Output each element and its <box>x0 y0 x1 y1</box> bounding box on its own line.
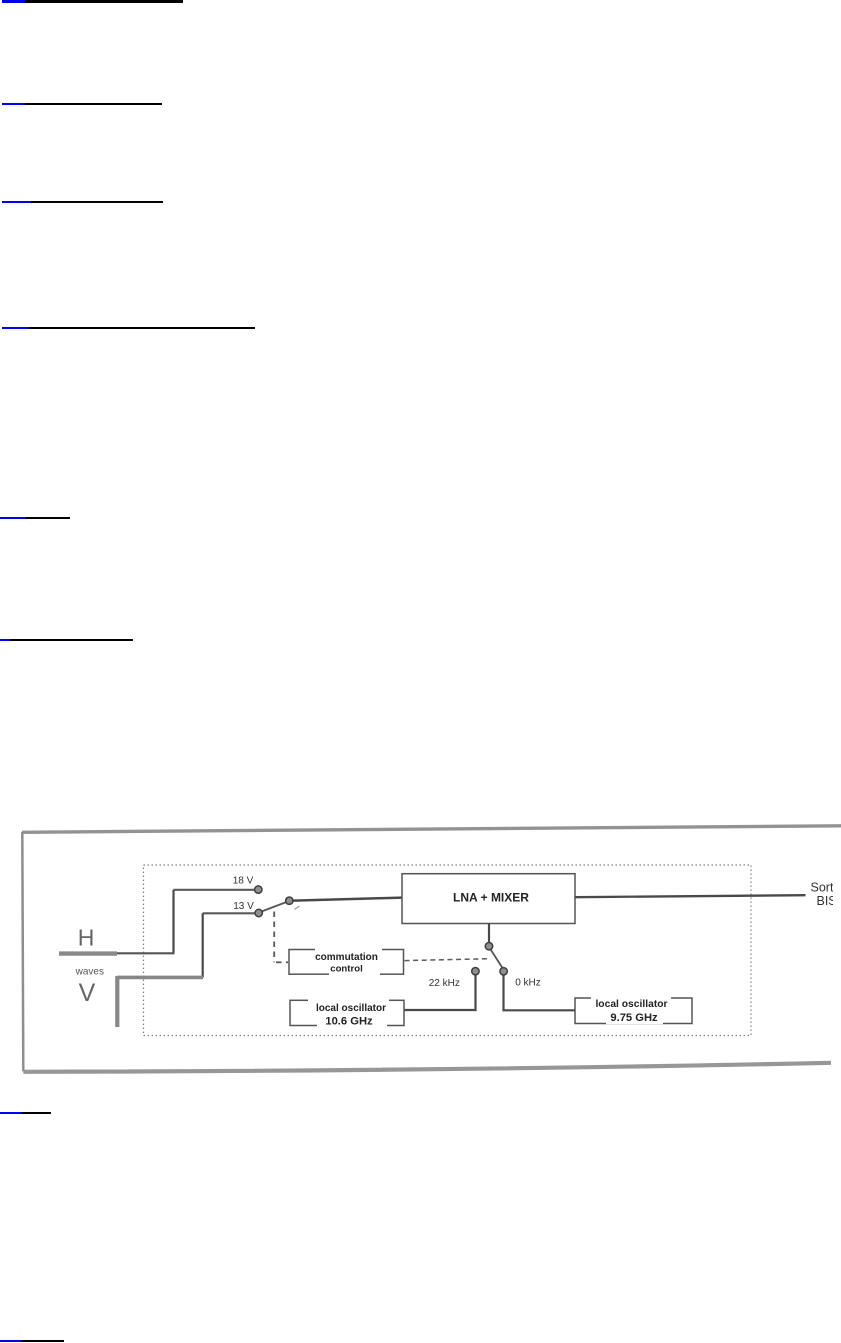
svg-text:0 kHz: 0 kHz <box>515 978 541 989</box>
label Sortie BIS (clipped at page edge) <box>811 881 841 909</box>
node dot 13V contact <box>255 909 262 916</box>
node dot 0kHz contact <box>500 968 507 975</box>
label waves <box>75 966 104 977</box>
svg-text:18 V: 18 V <box>233 876 254 887</box>
svg-text:V: V <box>79 979 96 1007</box>
node dot switch common (polarisation) <box>286 897 293 904</box>
svg-text:control: control <box>330 964 363 975</box>
waveguide V thick vertical stub <box>115 976 119 1027</box>
wire 22kHz contact down and left to 10.6 oscillator <box>405 975 476 1011</box>
switch arm from 13V contact to common <box>262 902 287 912</box>
node dot 18V contact <box>255 886 262 893</box>
label 0 kHz <box>515 978 541 989</box>
hyperlink underline 6 <box>0 639 10 641</box>
svg-text:9.75 GHz: 9.75 GHz <box>610 1012 658 1024</box>
svg-text:local oscillator: local oscillator <box>316 1003 386 1014</box>
switch arm from common to 0kHz contact <box>490 949 503 969</box>
LNA + MIXER box U1 <box>402 874 575 924</box>
hyperlink underline 8 <box>0 1340 22 1342</box>
svg-text:Sortie: Sortie <box>811 881 841 895</box>
label H polarisation <box>78 925 95 951</box>
svg-text:10.6 GHz: 10.6 GHz <box>325 1015 373 1027</box>
hyperlink underline 1 <box>2 0 25 3</box>
scanned outer frame bottom edge <box>23 1063 831 1072</box>
scan artifact tick <box>295 906 300 910</box>
wire V riser vertical <box>202 913 204 977</box>
hyperlink underline 3 <box>2 201 31 203</box>
scanned outer frame left edge <box>22 832 23 1071</box>
label V polarisation <box>79 979 96 1007</box>
wire H connector <box>115 952 175 954</box>
local oscillator 9.75 GHz box <box>575 995 692 1024</box>
svg-text:H: H <box>78 925 95 951</box>
scanned outer frame top edge <box>22 826 841 833</box>
dashed control line to 22kHz switch <box>405 959 488 961</box>
hyperlink underline 2 <box>2 103 25 105</box>
label 13 V <box>233 901 254 912</box>
wire 18V horizontal <box>174 889 256 891</box>
wire common to LNA input <box>290 898 403 901</box>
wire LNA output to right <box>575 895 806 897</box>
svg-text:BIS: BIS <box>817 894 837 908</box>
wire 13V horizontal <box>203 912 256 914</box>
svg-text:LNA + MIXER: LNA + MIXER <box>453 891 529 905</box>
node dot 22kHz contact <box>472 968 479 975</box>
waveguide H thick stub <box>59 951 117 955</box>
svg-text:commutation: commutation <box>315 952 378 963</box>
svg-text:22 kHz: 22 kHz <box>429 978 460 989</box>
hyperlink underline 7 <box>0 1112 22 1114</box>
waveguide V thick horizontal <box>117 976 203 980</box>
svg-text:13 V: 13 V <box>233 901 254 912</box>
label 18 V <box>233 876 254 887</box>
node dot band switch common <box>485 943 492 950</box>
label 22 kHz <box>429 978 460 989</box>
hyperlink underline 5 <box>0 517 26 519</box>
svg-text:local oscillator: local oscillator <box>595 999 667 1010</box>
wire 0kHz contact down and right to 9.75 oscillator <box>504 975 576 1011</box>
dashed control line vertical to 13V switch <box>274 912 288 963</box>
inner dotted boundary rectangle <box>144 865 752 1036</box>
commutation control box <box>289 947 404 976</box>
wire H riser vertical <box>172 890 174 954</box>
hyperlink underline 4 <box>2 327 29 329</box>
wire LNA bottom to switch common <box>488 924 490 944</box>
svg-text:waves: waves <box>75 966 104 977</box>
local oscillator 10.6 GHz box <box>290 998 404 1028</box>
